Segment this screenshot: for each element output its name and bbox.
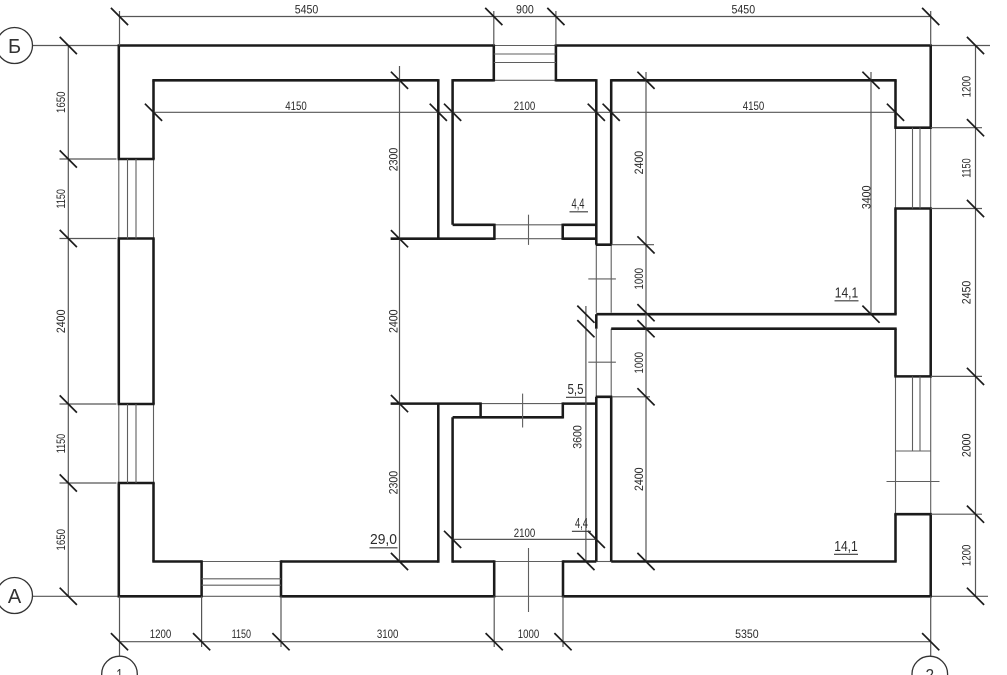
- exterior door D-bottom jambs: [493, 560, 496, 597]
- svg-text:14,1: 14,1: [834, 538, 858, 555]
- interior dim 3600 (centre-bottom): [585, 306, 587, 562]
- window W-top jambs: [493, 44, 496, 81]
- svg-text:2000: 2000: [960, 433, 974, 457]
- svg-text:1000: 1000: [518, 627, 540, 641]
- svg-text:Б: Б: [8, 36, 21, 58]
- band C right face x=611.2: [610, 79, 613, 245]
- svg-text:1000: 1000: [632, 268, 646, 290]
- svg-text:1: 1: [116, 666, 123, 675]
- interior dim 3400 (top-right room): [870, 72, 872, 315]
- svg-text:1150: 1150: [960, 158, 974, 178]
- svg-text:1150: 1150: [54, 189, 68, 209]
- top-centre room bottom face: [453, 224, 495, 227]
- svg-text:3400: 3400: [860, 185, 874, 209]
- hall bottom face + chain extension bar: [391, 402, 481, 405]
- window W-top glazing lines: [494, 53, 556, 55]
- door D3 jamb (to top-right room): [596, 243, 612, 246]
- svg-text:14,1: 14,1: [835, 284, 859, 301]
- svg-text:2450: 2450: [960, 280, 974, 304]
- door D3 jamb extension to chain: [612, 244, 654, 246]
- axis circle 2: [912, 656, 948, 675]
- hall top face + chain extension bar: [391, 237, 495, 240]
- svg-text:900: 900: [516, 3, 534, 17]
- window W2 left wall jambs: [118, 403, 155, 406]
- window W-right glazing lines: [912, 128, 914, 209]
- window W-bottom glazing lines: [202, 578, 281, 580]
- svg-text:4150: 4150: [285, 99, 307, 113]
- door D4 centre mark: [588, 361, 616, 363]
- bottom wall inner face: [152, 560, 201, 563]
- exterior wall: right outer face: [929, 46, 932, 128]
- window W2 glazing lines: [127, 404, 129, 483]
- interior chain x=646 (2400/1000/1000/2400): [645, 72, 647, 562]
- svg-text:3100: 3100: [377, 627, 399, 641]
- interior chain x=399.5 (2300/2400/2300): [399, 66, 401, 562]
- bottom-centre room top face: [453, 416, 564, 419]
- big room right wall face upper: [437, 79, 440, 239]
- right chain extension lines: [931, 127, 982, 129]
- window W1 left wall jambs: [118, 158, 155, 161]
- bottom dimension chain line: [120, 641, 931, 643]
- svg-text:1200: 1200: [960, 544, 974, 566]
- right wall inner face: [894, 80, 897, 127]
- axis circle A: [0, 578, 33, 614]
- svg-text:А: А: [8, 586, 22, 608]
- top dimension chain line: [120, 16, 931, 18]
- window W-top outer face (thin across opening): [494, 45, 556, 47]
- door D4 jamb (to bottom-right room): [596, 396, 613, 399]
- svg-text:2400: 2400: [632, 151, 646, 175]
- exterior wall: bottom outer face: [118, 595, 202, 598]
- svg-text:4,4: 4,4: [572, 195, 585, 212]
- interior dim line y=112 (4150/2100/4150): [154, 111, 896, 113]
- window W1 glazing lines: [127, 159, 129, 239]
- axis circle 1: [102, 656, 138, 675]
- right dimension chain line: [975, 46, 977, 597]
- left wall inner face: [152, 80, 155, 159]
- svg-text:5450: 5450: [295, 3, 319, 17]
- bottom chain ticks: [111, 633, 128, 650]
- wall between right rooms: top face: [596, 313, 896, 316]
- balcony door swing line: [887, 481, 940, 483]
- centre rooms left wall face lower: [451, 417, 454, 562]
- svg-text:4150: 4150: [743, 99, 765, 113]
- svg-text:5350: 5350: [735, 627, 759, 641]
- bottom window and door outer faces (thin across openings): [202, 595, 281, 597]
- window W-right jambs: [894, 126, 932, 129]
- door D2 centre mark: [522, 394, 524, 428]
- big room right wall face lower: [437, 404, 440, 563]
- balcony window glazing lines: [912, 376, 914, 451]
- svg-text:1650: 1650: [54, 91, 68, 113]
- door D1 jamb steps (top-centre room): [493, 224, 496, 240]
- axis line B (top): [33, 45, 119, 47]
- exterior door D-bottom centre mark: [528, 548, 530, 612]
- door D1 centre mark: [528, 215, 530, 245]
- left chain ticks: [60, 37, 77, 54]
- top chain extension lines: [119, 11, 121, 46]
- svg-text:2400: 2400: [632, 467, 646, 491]
- svg-text:1150: 1150: [232, 627, 252, 641]
- band C left face x=596.3: [595, 79, 598, 245]
- right chain ticks: [967, 37, 984, 54]
- right wall window outer faces (thin): [930, 128, 932, 209]
- axis circle B: [0, 28, 33, 64]
- svg-text:5,5: 5,5: [568, 381, 584, 398]
- left dimension chain line: [67, 46, 69, 597]
- svg-text:4,4: 4,4: [575, 515, 588, 532]
- svg-text:2400: 2400: [54, 309, 68, 333]
- top chain ticks: [111, 8, 128, 25]
- window W-bottom jambs: [200, 560, 203, 597]
- svg-text:2400: 2400: [387, 309, 401, 333]
- svg-text:1200: 1200: [960, 76, 974, 98]
- exterior wall: top outer face: [118, 44, 494, 47]
- svg-text:2100: 2100: [514, 99, 536, 113]
- wall between right rooms: bottom face: [611, 327, 897, 330]
- svg-text:1650: 1650: [54, 529, 68, 551]
- centre rooms left wall face upper: [451, 79, 454, 225]
- svg-text:1150: 1150: [54, 434, 68, 454]
- svg-text:3600: 3600: [571, 425, 585, 449]
- svg-text:1000: 1000: [632, 352, 646, 374]
- exterior wall: left outer face: [118, 46, 121, 160]
- top wall inner face: [152, 79, 438, 82]
- svg-text:2300: 2300: [387, 147, 401, 171]
- left wall window outer faces (thin): [118, 159, 120, 239]
- svg-text:2: 2: [926, 666, 935, 675]
- axis line A (bottom): [33, 595, 119, 597]
- svg-text:29,0: 29,0: [370, 531, 397, 548]
- svg-text:2100: 2100: [514, 526, 536, 540]
- svg-text:1200: 1200: [150, 627, 172, 641]
- svg-text:2300: 2300: [387, 471, 401, 495]
- balcony block jambs (right wall): [894, 375, 932, 378]
- bottom chain extension lines: [119, 596, 121, 656]
- door D3 centre mark: [588, 278, 616, 280]
- svg-text:5450: 5450: [732, 3, 756, 17]
- door D2 jamb steps (bottom-centre room): [479, 402, 482, 418]
- balcony window/door divider: [896, 450, 931, 452]
- interior dim bottom-centre 2100: [453, 538, 597, 540]
- left chain extension lines: [60, 158, 117, 160]
- door D4 jamb extension to chain: [612, 396, 650, 398]
